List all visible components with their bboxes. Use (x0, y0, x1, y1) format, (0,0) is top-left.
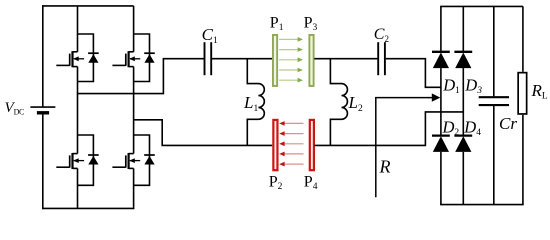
wire (C1 to plate P1) (212, 58, 272, 60)
transistor Q3 (112, 34, 149, 82)
plate P2 (transmitter bottom) (273, 120, 277, 170)
body diode of Q4 (144, 155, 155, 165)
body diode of Q3 (144, 53, 155, 63)
wire (inverter leg A middle segment) (77, 67, 79, 154)
transistor Q2 (56, 135, 93, 185)
inductor L2 (330, 59, 347, 146)
capacitor Cr (479, 97, 509, 105)
wire (inverter bottom DC rail) (42, 207, 134, 209)
body diode of Q2 (88, 155, 99, 165)
wire (left rail bottom, battery - to bottom rail) (42, 113, 44, 209)
inductor L1 (247, 59, 264, 146)
wire (rectifier bottom DC rail) (440, 204, 524, 206)
wire (C2 to rectifier AC input 1) (386, 59, 441, 88)
plate P3 (receiver top) (309, 35, 313, 86)
wire (rectifier right column middle) (462, 68, 464, 136)
wire (P4 to rectifier AC input 2) (314, 112, 463, 145)
diode D2 (432, 136, 450, 152)
red field arrows P4 to P2 (279, 121, 303, 166)
plate P4 (receiver bottom) (310, 120, 314, 170)
wire (rectifier right column bottom) (462, 152, 464, 205)
wire (left rail top, battery + to top rail) (42, 5, 44, 107)
plate P1 (transmitter top) (273, 35, 277, 86)
wire (P3 to C2) (314, 58, 377, 60)
battery VDC (30, 107, 55, 113)
wire (RL column bottom) (522, 115, 524, 205)
transistor Q4 (112, 135, 149, 185)
wire (inverter leg B middle segment) (133, 67, 135, 154)
wire (Cr column bottom) (493, 106, 495, 205)
wire (RL column top) (522, 6, 524, 71)
wire (inverter top DC rail) (42, 5, 134, 7)
wire (leg A midpoint to C1) (78, 59, 204, 94)
svg-text:Cr: Cr (499, 114, 517, 133)
wire (rectifier top DC rail) (440, 5, 523, 7)
diode D4 (454, 136, 472, 152)
capacitor C2 (378, 42, 385, 75)
wire (inverter leg B drain segment) (133, 6, 135, 52)
body diode of Q1 (88, 53, 99, 63)
svg-text:R: R (379, 157, 391, 177)
green field arrows P1 to P3 (279, 37, 303, 83)
wire (rectifier left column top) (440, 6, 442, 52)
resistor RL (518, 73, 527, 114)
wire (inverter leg A source segment) (77, 168, 79, 208)
wire (rectifier left column middle) (440, 68, 442, 136)
diode D1 (432, 52, 450, 68)
wire (inverter leg A drain segment) (77, 6, 79, 52)
wire (Cr column top) (493, 6, 495, 96)
wire (rectifier right column top) (462, 6, 464, 52)
diode D3 (454, 52, 472, 68)
wire (inverter leg B source segment) (133, 168, 135, 208)
capacitor C1 (205, 42, 212, 75)
wire (rectifier left column bottom) (440, 152, 442, 205)
wire (leg B midpoint to bottom plate rail) (134, 120, 273, 146)
node R : equivalent-resistance arrow into rectifier (376, 93, 441, 197)
transistor Q1 (56, 34, 93, 82)
